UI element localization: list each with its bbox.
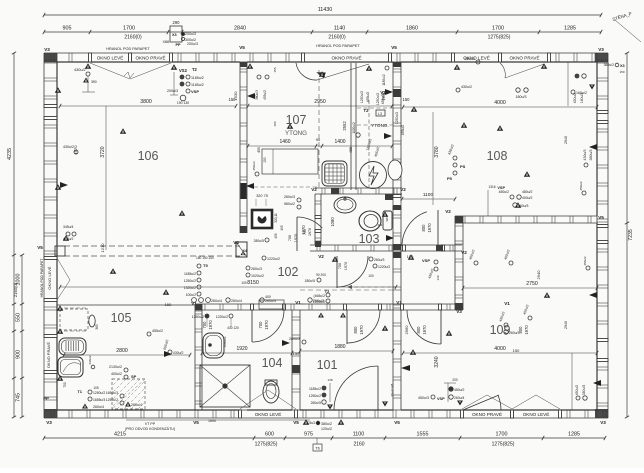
door room 101 upper <box>346 310 348 344</box>
svg-text:1285: 1285 <box>568 432 580 438</box>
svg-text:1316: 1316 <box>488 185 495 189</box>
door room 104 <box>251 310 253 342</box>
svg-text:700: 700 <box>202 321 207 329</box>
svg-text:1080: 1080 <box>330 217 335 227</box>
annotation cluster VS2 T2 below chimney vent <box>171 64 178 70</box>
svg-text:200u/3: 200u/3 <box>185 32 196 36</box>
svg-text:V1: V1 <box>295 300 301 305</box>
svg-text:260u/3: 260u/3 <box>284 195 295 199</box>
svg-text:2552: 2552 <box>342 121 347 131</box>
svg-text:1880: 1880 <box>334 344 345 350</box>
svg-text:455: 455 <box>274 233 278 239</box>
outer wall inner face emphasis <box>57 61 240 63</box>
svg-text:150: 150 <box>403 97 411 102</box>
svg-text:2750: 2750 <box>526 281 538 287</box>
door room 109 <box>440 310 442 344</box>
svg-text:PP: PP <box>175 43 181 47</box>
svg-text:130: 130 <box>436 275 440 280</box>
toilet room 104 <box>263 381 279 403</box>
svg-text:2160(0): 2160(0) <box>328 35 346 41</box>
dashed partition around YTONG label <box>368 100 370 190</box>
svg-text:1275(825): 1275(825) <box>488 35 511 41</box>
svg-text:T2: T2 <box>364 108 370 113</box>
svg-text:1185u/2: 1185u/2 <box>309 387 321 391</box>
svg-text:380u/3: 380u/3 <box>582 385 586 395</box>
svg-text:8150: 8150 <box>247 280 259 286</box>
bottom dimension row: 4215 / 600 / 975 / 1100 / 1555 / 1700 / 1285 <box>44 437 605 439</box>
left wall of room 103 <box>314 194 316 217</box>
shower enclosure room 104 <box>200 365 250 407</box>
line at x568 in 108 <box>567 62 569 106</box>
svg-text:1275(825): 1275(825) <box>492 442 515 448</box>
svg-text:960u/2: 960u/2 <box>284 202 295 206</box>
svg-text:1220u/2: 1220u/2 <box>378 265 390 269</box>
annotation below 103 in 102 <box>246 266 250 270</box>
svg-text:V4: V4 <box>233 240 239 245</box>
building corner blocks <box>44 53 57 62</box>
door in bottom wall room 109 <box>463 395 499 410</box>
svg-text:OKNO PRAVÉ: OKNO PRAVÉ <box>135 54 165 60</box>
interior wall between rooms 106 and 107 <box>239 62 241 233</box>
bathtub room 105 <box>59 338 86 355</box>
svg-text:V3: V3 <box>600 420 606 425</box>
svg-text:1060u/3: 1060u/3 <box>223 336 227 347</box>
svg-text:550: 550 <box>16 313 22 322</box>
svg-text:155: 155 <box>273 67 277 72</box>
svg-text:195: 195 <box>280 225 284 231</box>
svg-text:450u/2: 450u/2 <box>579 181 583 191</box>
svg-text:1970: 1970 <box>344 262 348 270</box>
svg-text:1250u/2: 1250u/2 <box>309 394 321 398</box>
window sight lines bottom 104 <box>240 390 268 409</box>
svg-text:186: 186 <box>273 121 277 126</box>
svg-text:3240: 3240 <box>434 356 440 367</box>
svg-text:105: 105 <box>111 311 132 325</box>
annotation right of 102 door <box>369 257 373 261</box>
svg-text:700: 700 <box>258 321 263 329</box>
svg-text:V5: V5 <box>394 420 400 425</box>
right border dimension 7235 <box>626 53 628 417</box>
svg-text:1185u/2: 1185u/2 <box>191 83 204 87</box>
svg-text:T2: T2 <box>192 67 198 72</box>
black segment on wall A <box>241 183 247 199</box>
dashed line above chimney <box>254 186 318 188</box>
svg-text:900: 900 <box>16 350 22 359</box>
svg-text:200: 200 <box>452 378 458 382</box>
svg-text:1700: 1700 <box>496 432 508 438</box>
vertical dim line in 106 <box>105 106 107 250</box>
dim 1920 in room 104 <box>202 352 292 354</box>
dim 2750 in room 109 upper <box>463 287 597 289</box>
svg-text:V5: V5 <box>293 420 299 425</box>
annotation cluster right wall top <box>575 74 579 78</box>
svg-text:V1: V1 <box>396 300 402 305</box>
svg-text:260u/3: 260u/3 <box>374 258 384 262</box>
svg-text:150: 150 <box>293 351 300 356</box>
svg-text:1250u/2: 1250u/2 <box>192 315 204 319</box>
svg-text:3720: 3720 <box>100 146 106 157</box>
dim 1880 in room 101 <box>300 350 393 352</box>
wall between rooms 105 and 104 <box>194 304 196 410</box>
dim extension line right of 109 <box>571 353 573 410</box>
svg-text:280u/3: 280u/3 <box>289 337 300 341</box>
svg-text:VSP: VSP <box>191 89 199 94</box>
annotation stack in 107 left <box>257 75 261 79</box>
svg-text:455u/2: 455u/2 <box>381 94 385 104</box>
svg-text:V2: V2 <box>445 209 451 214</box>
svg-text:104: 104 <box>262 356 283 370</box>
svg-text:X88: X88 <box>163 40 169 44</box>
svg-text:380u/2: 380u/2 <box>604 63 614 67</box>
annotation circle 1220 left in 102 <box>262 256 266 260</box>
svg-text:2800: 2800 <box>116 348 128 354</box>
svg-text:VS2: VS2 <box>179 68 188 73</box>
svg-text:345u/4: 345u/4 <box>63 225 73 229</box>
svg-text:600: 600 <box>265 432 274 438</box>
svg-text:180u/5: 180u/5 <box>305 279 315 283</box>
svg-text:3800: 3800 <box>140 99 152 105</box>
svg-text:150: 150 <box>513 348 520 353</box>
svg-text:1250u/2: 1250u/2 <box>106 398 118 402</box>
dim 3780 extension line <box>432 112 434 205</box>
svg-text:V2: V2 <box>318 254 324 259</box>
svg-text:YTONG.: YTONG. <box>371 123 389 128</box>
svg-text:PS: PS <box>460 164 466 169</box>
svg-text:VSP: VSP <box>437 397 445 401</box>
svg-text:455u/2: 455u/2 <box>263 90 267 100</box>
svg-text:800: 800 <box>421 224 426 232</box>
svg-text:455u/2: 455u/2 <box>401 125 405 135</box>
dashed lines in room 101 <box>300 289 393 291</box>
svg-text:1860: 1860 <box>406 26 418 32</box>
svg-text:Psod 128: Psod 128 <box>390 383 394 396</box>
svg-text:V2: V2 <box>311 187 317 192</box>
svg-text:1140: 1140 <box>334 26 346 32</box>
svg-text:1690: 1690 <box>208 419 216 423</box>
svg-text:SP: SP <box>131 374 137 379</box>
svg-text:1320u/2: 1320u/2 <box>184 286 196 290</box>
washbasin on wall B <box>388 160 402 180</box>
svg-text:OKNO PRAVÉ: OKNO PRAVÉ <box>472 411 502 417</box>
door room 101 lower <box>377 366 379 410</box>
svg-text:450u/3: 450u/3 <box>252 161 256 171</box>
svg-text:101: 101 <box>317 358 338 372</box>
svg-text:455: 455 <box>257 147 261 153</box>
hatched dashed area room 105 <box>112 379 145 409</box>
left dimension line 4235/1000/550/900/745 <box>13 53 15 417</box>
svg-text:1250u/2: 1250u/2 <box>360 91 364 103</box>
bathtub room 107 bath <box>322 161 347 186</box>
svg-text:450u/2: 450u/2 <box>583 256 587 266</box>
svg-text:L3: L3 <box>378 112 382 116</box>
svg-text:1100: 1100 <box>353 432 365 438</box>
svg-text:200u/3: 200u/3 <box>167 89 178 93</box>
svg-text:750: 750 <box>63 382 67 388</box>
annotation 108 right <box>571 90 575 94</box>
dim 3800 in room 106 <box>60 105 236 107</box>
svg-text:260u/4: 260u/4 <box>93 405 104 409</box>
annotation row in 102 right <box>260 298 264 302</box>
svg-text:320 75: 320 75 <box>256 194 268 198</box>
svg-text:4215: 4215 <box>114 432 126 438</box>
dim 2800 in room 105 <box>64 354 190 356</box>
svg-text:X3: X3 <box>172 33 177 37</box>
svg-text:V2: V2 <box>400 187 406 192</box>
svg-text:V3: V3 <box>598 47 604 52</box>
svg-text:X3: X3 <box>620 64 625 68</box>
dim 4000 in room 108 <box>403 106 597 108</box>
svg-text:480u/2: 480u/2 <box>522 190 532 194</box>
svg-text:V5: V5 <box>37 245 43 250</box>
svg-text:HRANOL POD PARAPET: HRANOL POD PARAPET <box>106 47 150 51</box>
svg-text:VSP: VSP <box>422 258 430 263</box>
svg-text:1970: 1970 <box>208 320 213 330</box>
dashed duct lines in 102 <box>348 286 396 288</box>
svg-text:2160: 2160 <box>353 442 364 448</box>
svg-text:2940: 2940 <box>564 321 568 329</box>
wall above rooms 104 and 101 <box>195 303 252 305</box>
svg-text:450u/2: 450u/2 <box>499 190 509 194</box>
svg-text:260u/4: 260u/4 <box>131 403 142 407</box>
svg-text:T6: T6 <box>315 447 319 451</box>
svg-text:2160(0): 2160(0) <box>124 35 142 41</box>
svg-text:100: 100 <box>241 281 247 285</box>
svg-text:V5: V5 <box>239 45 245 50</box>
svg-text:90 200: 90 200 <box>316 273 326 277</box>
svg-text:1250u/2: 1250u/2 <box>376 93 380 105</box>
svg-text:455u/2: 455u/2 <box>152 329 163 333</box>
svg-text:290: 290 <box>173 20 181 25</box>
svg-text:103: 103 <box>359 232 380 246</box>
svg-text:320,11: 320,11 <box>274 213 278 223</box>
svg-text:2940: 2940 <box>536 270 541 280</box>
svg-text:OKNO PRAVÉ: OKNO PRAVÉ <box>331 54 361 60</box>
svg-text:OKNO LEVÉ: OKNO LEVÉ <box>97 54 124 60</box>
svg-text:1275(825): 1275(825) <box>255 442 278 448</box>
svg-text:V5: V5 <box>391 45 397 50</box>
svg-text:106: 106 <box>138 149 159 163</box>
svg-text:VSP: VSP <box>497 186 505 190</box>
svg-text:400u/2: 400u/2 <box>111 372 122 376</box>
svg-text:260u/3: 260u/3 <box>509 331 519 335</box>
svg-text:1185u/2: 1185u/2 <box>382 74 386 86</box>
svg-text:180u/3: 180u/3 <box>580 93 584 103</box>
door at partition top in 107 <box>296 63 317 80</box>
wall between rooms 108 and 109 <box>455 215 597 217</box>
svg-text:260u/4: 260u/4 <box>211 299 222 303</box>
svg-text:100u/2: 100u/2 <box>186 293 196 297</box>
svg-text:424: 424 <box>378 223 383 227</box>
svg-text:1970: 1970 <box>422 325 427 335</box>
shower tray room 105 <box>58 357 83 377</box>
svg-text:1210: 1210 <box>100 243 105 253</box>
outer wall bottom <box>44 409 240 411</box>
svg-text:VT PP: VT PP <box>145 422 156 426</box>
dashed appliance outline room 105 <box>60 309 88 330</box>
dim 4000 in room 109 <box>403 352 597 354</box>
outer wall top <box>44 52 90 54</box>
annotation circles right wall <box>582 191 586 195</box>
svg-text:138: 138 <box>327 378 332 382</box>
svg-text:1220u/2: 1220u/2 <box>313 300 325 304</box>
svg-text:T1: T1 <box>77 389 82 394</box>
svg-text:1220u/2: 1220u/2 <box>216 315 228 319</box>
svg-text:1250u/2: 1250u/2 <box>395 112 399 124</box>
svg-text:V5: V5 <box>193 420 199 425</box>
svg-text:OKNO LEVÉ: OKNO LEVÉ <box>47 266 52 289</box>
svg-text:180 150 150: 180 150 150 <box>196 256 214 260</box>
svg-text:1020u/2: 1020u/2 <box>251 274 264 278</box>
svg-text:PP: PP <box>43 396 49 401</box>
filled arrow markers on walls <box>589 144 597 150</box>
boiler room 107 bath <box>360 162 387 189</box>
svg-text:2130u/2: 2130u/2 <box>109 365 122 369</box>
svg-text:1700: 1700 <box>123 26 135 32</box>
svg-text:180u/3: 180u/3 <box>516 95 527 99</box>
svg-text:450u/2: 450u/2 <box>575 385 579 395</box>
svg-text:200u/3: 200u/3 <box>187 42 198 46</box>
svg-text:430u/2: 430u/2 <box>74 68 86 72</box>
svg-text:1020u/2: 1020u/2 <box>352 122 356 134</box>
window sight lines room 106 <box>90 63 130 79</box>
svg-text:1530: 1530 <box>233 91 238 101</box>
svg-text:450u/3: 450u/3 <box>418 396 429 400</box>
svg-text:V3: V3 <box>44 47 50 52</box>
ceiling beam dashed between 106 and 105 <box>64 245 240 247</box>
svg-text:107: 107 <box>286 113 307 127</box>
svg-text:3780: 3780 <box>434 146 440 157</box>
svg-text:1970: 1970 <box>427 223 432 233</box>
svg-text:1970: 1970 <box>359 325 364 335</box>
svg-text:HRANOL POD PARAPET: HRANOL POD PARAPET <box>40 259 44 298</box>
svg-text:HRANOL POD PARAPET: HRANOL POD PARAPET <box>316 44 360 48</box>
dark jamb blocks on walls <box>393 89 401 97</box>
svg-text:105: 105 <box>93 386 99 390</box>
YTONG partition in room 107 <box>350 63 352 190</box>
svg-text:455u/2: 455u/2 <box>366 92 370 102</box>
svg-text:1185u/2: 1185u/2 <box>184 272 196 276</box>
svg-text:1555: 1555 <box>417 432 429 438</box>
svg-text:90: 90 <box>316 137 321 142</box>
svg-text:11430: 11430 <box>318 7 333 13</box>
svg-text:100: 100 <box>368 274 374 278</box>
counter line west of wall 105/104 <box>57 304 195 306</box>
svg-text:T5: T5 <box>203 263 208 268</box>
dim 1460 / 90 / 1400 in room 107 <box>248 145 392 147</box>
svg-text:OKNO PRAVÉ: OKNO PRAVÉ <box>509 54 539 60</box>
svg-text:905: 905 <box>63 26 72 32</box>
svg-text:V2: V2 <box>461 250 467 255</box>
svg-text:380u/2: 380u/2 <box>321 422 332 426</box>
svg-text:1185u/2: 1185u/2 <box>191 76 204 80</box>
svg-text:745: 745 <box>16 393 22 402</box>
bottom wall of room 103 / corridor <box>310 244 404 246</box>
svg-text:150: 150 <box>619 70 624 74</box>
window sight lines room 108 <box>500 63 505 78</box>
svg-text:1970: 1970 <box>264 320 269 330</box>
svg-text:OKNO PRAVÉ: OKNO PRAVÉ <box>46 342 51 368</box>
svg-text:400: 400 <box>265 295 271 299</box>
outer wall left <box>43 53 45 106</box>
svg-text:V5: V5 <box>598 215 604 220</box>
svg-text:1655u/3: 1655u/3 <box>93 398 105 402</box>
svg-text:365: 365 <box>95 324 99 330</box>
svg-text:OKNO LEVÉ: OKNO LEVÉ <box>523 411 550 417</box>
svg-text:390: 390 <box>91 80 97 84</box>
wall left of room 109 upper part <box>454 216 456 310</box>
svg-text:1970: 1970 <box>301 225 306 235</box>
svg-text:102: 102 <box>278 265 299 279</box>
svg-text:OKNO LEVÉ: OKNO LEVÉ <box>255 411 282 417</box>
svg-text:2840: 2840 <box>234 26 246 32</box>
svg-text:1700: 1700 <box>492 26 504 32</box>
svg-text:7235: 7235 <box>628 229 634 241</box>
svg-text:450u/2: 450u/2 <box>454 388 464 392</box>
svg-text:1250u/2: 1250u/2 <box>184 279 196 283</box>
svg-text:4000: 4000 <box>494 100 506 106</box>
svg-text:430u/2: 430u/2 <box>88 355 92 365</box>
svg-text:430u/2: 430u/2 <box>573 93 577 103</box>
dim 8150 in room 102 <box>60 286 396 288</box>
dim 1100 near room 108 door <box>402 198 455 200</box>
svg-text:975: 975 <box>304 432 313 438</box>
dim 2950 in room 107 <box>248 105 392 107</box>
svg-text:2950: 2950 <box>314 99 326 105</box>
svg-text:108: 108 <box>487 149 508 163</box>
svg-text:430u/2: 430u/2 <box>63 145 74 149</box>
svg-text:280u/5: 280u/5 <box>254 239 264 243</box>
column at beam end V4 <box>236 242 247 257</box>
warning triangle symbols <box>120 128 127 134</box>
svg-text:1920: 1920 <box>236 346 247 352</box>
svg-text:430 120: 430 120 <box>227 326 239 330</box>
washbasin room 103 <box>334 197 356 213</box>
toilet room 103 <box>359 211 381 231</box>
svg-text:400u/2: 400u/2 <box>522 196 532 200</box>
svg-text:700: 700 <box>338 263 342 269</box>
svg-text:260u/5: 260u/5 <box>311 401 321 405</box>
wall between rooms 104 and 101 <box>291 310 293 410</box>
svg-text:380u/3: 380u/3 <box>589 150 593 161</box>
svg-text:(465u/2: (465u/2 <box>314 294 326 298</box>
annotation cluster above wall 108/109 <box>510 195 514 199</box>
svg-text:800: 800 <box>416 326 421 334</box>
svg-text:260u/3: 260u/3 <box>251 267 262 271</box>
svg-text:YTONG: YTONG <box>285 130 307 137</box>
door corridor to 109 upper <box>437 210 439 246</box>
svg-text:430u/2: 430u/2 <box>461 85 472 89</box>
svg-text:(PRO ODVOD KONDENZÁTU): (PRO ODVOD KONDENZÁTU) <box>125 427 175 431</box>
window sight lines bottom 109 <box>462 395 487 409</box>
svg-text:4000: 4000 <box>494 346 506 352</box>
top wall of room 103 <box>315 187 402 189</box>
svg-text:120u/2: 120u/2 <box>321 427 332 431</box>
svg-text:430u/3: 430u/3 <box>583 150 587 161</box>
window sight lines left wall <box>57 258 70 280</box>
top dimension row: 905 / 1700 / 290 / 2840 / 1140 / 1860 / 1700 / 1285 <box>44 31 601 33</box>
svg-text:150: 150 <box>165 302 172 307</box>
svg-text:1650u/3: 1650u/3 <box>106 391 118 395</box>
svg-text:1400: 1400 <box>334 139 345 145</box>
chimney flue <box>252 210 272 228</box>
door of room 103 leaf and arc <box>296 217 298 251</box>
svg-text:1970: 1970 <box>308 228 312 236</box>
outer wall right <box>596 53 598 112</box>
svg-text:450u/2: 450u/2 <box>464 57 475 61</box>
door room 102 <box>336 256 338 288</box>
svg-text:2940: 2940 <box>564 136 568 144</box>
annotation circles 108 mid <box>516 88 520 92</box>
